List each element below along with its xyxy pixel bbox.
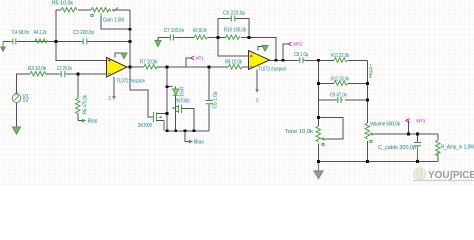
svg-text:R6 470,0k: R6 470,0k — [83, 95, 89, 114]
svg-text:C8 1,0µ: C8 1,0µ — [294, 52, 308, 58]
resistor R9 — [194, 35, 207, 40]
svg-text:R_Amp_in 1,0M: R_Amp_in 1,0M — [441, 145, 474, 151]
svg-text:2N7000: 2N7000 — [175, 99, 190, 105]
capacitor C4 — [11, 39, 18, 45]
wire tone wiper box — [319, 118, 344, 140]
diode D1 1N34 — [173, 89, 179, 95]
voltage source V1 — [12, 92, 21, 103]
svg-text:C2 20,0n: C2 20,0n — [57, 66, 72, 72]
probe VP3 — [406, 118, 426, 124]
wire gain wiper — [101, 16, 130, 29]
capacitor C9 — [336, 97, 344, 103]
svg-text:R12 33,0k: R12 33,0k — [331, 77, 349, 83]
transistor Q1 2N7000 — [152, 112, 167, 131]
wire opamp2 gnd pin — [258, 47, 265, 51]
ground source V1 — [13, 127, 21, 134]
potentiometer Gain — [91, 7, 119, 17]
potentiometer Tone — [316, 126, 326, 146]
wire output2 — [270, 59, 319, 61]
svg-text:R9 30,0k: R9 30,0k — [193, 28, 207, 34]
svg-text:C9 47,0n: C9 47,0n — [330, 93, 347, 99]
wire opamp1 vcc pin — [113, 77, 115, 96]
transistor Q2 2N7000 — [172, 105, 182, 114]
svg-text:1N34: 1N34 — [180, 87, 186, 97]
svg-text:TL072 myspice: TL072 myspice — [258, 67, 287, 73]
wire volume wiper line — [371, 133, 438, 135]
power flag 9V (U1) — [108, 95, 116, 100]
svg-text:2N7000: 2N7000 — [138, 123, 152, 129]
wire VP1 elbow — [186, 58, 191, 67]
svg-text:Tone 10,0k: Tone 10,0k — [285, 129, 314, 135]
wire C9 branch — [319, 99, 368, 101]
wire tonestack left vertical — [318, 60, 320, 161]
power flag 9V (U2) — [255, 89, 259, 103]
wire feedback2 — [249, 38, 276, 61]
wire bias bus — [167, 131, 209, 142]
resistor R5 — [61, 8, 77, 13]
capacitor C5 — [206, 101, 213, 104]
watermark logo — [413, 167, 426, 180]
wire nodeB to pin — [218, 38, 249, 57]
wire gate loop M1 — [130, 67, 152, 117]
probe VP2 — [288, 42, 302, 48]
switch HP/LP — [370, 64, 372, 78]
resistor R12 — [334, 81, 348, 86]
svg-text:VP3: VP3 — [416, 118, 425, 124]
wire M2 gate — [182, 109, 195, 131]
ground input — [0, 42, 6, 53]
capacitor C_cable — [414, 143, 421, 146]
wire C7 R9 — [158, 38, 218, 41]
resistor R11 — [334, 58, 348, 63]
wire R12 branch — [319, 83, 368, 85]
wire bottom bus — [319, 161, 439, 163]
ground tone bottom — [314, 162, 323, 179]
wire source to ground — [16, 103, 18, 127]
wire output1 — [127, 66, 249, 68]
svg-text:C6 220,0p: C6 220,0p — [223, 11, 245, 17]
ground opamp1 — [121, 53, 127, 59]
svg-text:R11 22,0k: R11 22,0k — [331, 53, 349, 59]
svg-text:VP1: VP1 — [196, 56, 204, 62]
wire R11 branch — [319, 60, 368, 161]
wire C_cable — [417, 134, 419, 162]
svg-text:R7 10,0k: R7 10,0k — [140, 60, 158, 66]
svg-text:TL072 myspice: TL072 myspice — [117, 79, 146, 85]
wire C6 loop — [218, 19, 249, 38]
resistor R3 — [30, 72, 46, 77]
resistor R6 — [76, 98, 81, 114]
svg-text:VP2: VP2 — [293, 42, 302, 48]
svg-text:1V: 1V — [23, 98, 30, 104]
svg-text:HP/LP: HP/LP — [369, 67, 373, 78]
wire input bottom — [17, 74, 107, 94]
svg-text:Gain 1,0M: Gain 1,0M — [103, 18, 124, 24]
resistor R7 — [144, 65, 158, 70]
net flag Bias (R6) — [82, 119, 98, 125]
op-amp U2 TL072 — [249, 51, 270, 70]
svg-text:R10 150,0k: R10 150,0k — [224, 28, 246, 34]
svg-text:YOUʃPICE: YOUʃPICE — [428, 169, 474, 181]
svg-text:C4 68,0n: C4 68,0n — [12, 30, 29, 36]
wire opamp2 vcc pin — [256, 70, 258, 90]
capacitor C_cable lead stub — [417, 147, 419, 157]
wire to noninverting input U1 — [56, 42, 107, 61]
ground opamp2 — [262, 46, 268, 52]
wire opamp1 gnd pin — [115, 53, 124, 57]
capacitor C8 — [298, 57, 306, 63]
probe VP1 — [191, 56, 204, 62]
svg-text:Bias: Bias — [88, 119, 99, 125]
resistor R_Amp_in — [436, 140, 441, 156]
wire C5 — [208, 67, 210, 131]
svg-text:C_cable 300,0p: C_cable 300,0p — [378, 145, 416, 151]
svg-text:Bias: Bias — [194, 140, 205, 146]
op-amp U1 TL072 — [107, 57, 128, 77]
svg-text:C3 220,0p: C3 220,0p — [73, 30, 94, 36]
resistor R10 — [226, 35, 240, 40]
wire VP3 elbow — [408, 121, 410, 135]
capacitor C6 — [229, 16, 237, 22]
svg-text:R5 10,0k: R5 10,0k — [52, 1, 74, 7]
potentiometer Volume — [365, 123, 374, 143]
wire R_Amp_in — [437, 134, 439, 162]
resistor R8 — [228, 65, 242, 70]
svg-text:R4 2,2k: R4 2,2k — [34, 30, 47, 36]
resistor R4 — [35, 39, 48, 43]
resistor R_Amp_in lead stub — [437, 152, 439, 157]
svg-text:9V: 9V — [255, 97, 259, 102]
wire diode column — [167, 67, 176, 131]
wire input top — [3, 41, 130, 43]
capacitor C2 — [59, 71, 67, 77]
net flag Bias (bottom) — [189, 140, 205, 146]
capacitor C3 — [81, 39, 89, 45]
svg-text:9V: 9V — [108, 95, 112, 100]
svg-text:C5 1,0µ: C5 1,0µ — [213, 91, 219, 108]
wire VP2 elbow — [283, 44, 288, 60]
svg-text:R8 10,0k: R8 10,0k — [225, 60, 242, 66]
wire feedback top — [56, 10, 130, 67]
ground C7 — [155, 41, 161, 47]
svg-text:R3 10,0k: R3 10,0k — [28, 66, 46, 72]
svg-text:Volume 500,0k: Volume 500,0k — [370, 122, 400, 128]
svg-text:C7 100,0n: C7 100,0n — [164, 28, 184, 34]
capacitor C7 — [168, 35, 176, 41]
